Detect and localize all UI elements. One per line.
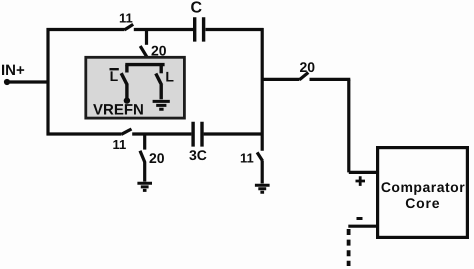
wire dashed to minus: [347, 229, 351, 266]
wire top rail left: [47, 28, 125, 31]
comparator core box U1: [378, 148, 468, 238]
wire right branch stub: [159, 65, 162, 74]
wire top rail right: [206, 28, 264, 31]
svg-text:L: L: [165, 68, 174, 84]
wire bottom rail right: [204, 132, 264, 135]
switch 20 right flipper: [299, 73, 308, 80]
svg-text:Core: Core: [405, 195, 440, 211]
svg-text:Comparator: Comparator: [381, 179, 465, 195]
wire to ground: [143, 162, 146, 182]
svg-text:L: L: [110, 68, 119, 84]
capacitor 3C: [193, 122, 202, 147]
wire top junction stub: [145, 30, 148, 45]
switch 20 bottom flipper: [140, 151, 145, 162]
VREFN shaded box: [86, 57, 185, 118]
wire to comparator right seg: [310, 78, 351, 81]
svg-text:3C: 3C: [189, 147, 207, 163]
wire IN+ lead: [8, 80, 49, 83]
ground (inside box): [153, 101, 170, 109]
wire minus input: [348, 225, 377, 228]
node IN+ terminal: [4, 79, 10, 85]
wire right vertical bus: [261, 28, 264, 151]
svg-text:20: 20: [149, 150, 165, 166]
switch 20 top flipper: [140, 46, 147, 57]
wire T-bar inside box: [125, 63, 164, 66]
switch L flipper: [156, 74, 162, 86]
wire to comparator left seg: [262, 78, 299, 81]
svg-text:IN+: IN+: [1, 62, 25, 79]
switch 11 right flipper: [257, 152, 263, 161]
wire bottom junction stub: [143, 134, 146, 150]
wire bottom rail middle: [132, 132, 191, 135]
capacitor C: [195, 17, 204, 41]
wire right branch lower: [159, 85, 162, 99]
svg-text:11: 11: [119, 11, 133, 26]
node VREFN dot: [124, 97, 130, 103]
svg-text:11: 11: [240, 151, 254, 166]
svg-text:20: 20: [151, 43, 167, 59]
wire right vertical lower: [261, 161, 264, 184]
wire left vertical bus: [46, 28, 49, 136]
ground (bottom middle): [137, 183, 152, 190]
wire left branch stub: [125, 65, 128, 73]
wire into VREFN box: [145, 56, 148, 65]
svg-text:C: C: [191, 0, 203, 17]
svg-text:VREFN: VREFN: [93, 102, 144, 119]
wire down to plus input: [347, 79, 350, 172]
switch Lbar flipper: [121, 73, 127, 85]
ground (bottom right): [255, 185, 270, 192]
wire plus input: [349, 171, 377, 174]
svg-text:20: 20: [300, 59, 316, 75]
wire top rail middle: [134, 28, 193, 31]
svg-text:11: 11: [113, 137, 127, 152]
wire bottom rail left: [47, 132, 122, 135]
label +: [356, 176, 366, 186]
switch 11 top flipper: [125, 24, 134, 30]
label -: [357, 217, 363, 220]
switch 11 bottom flipper: [121, 129, 131, 134]
wire left branch lower: [125, 85, 128, 100]
